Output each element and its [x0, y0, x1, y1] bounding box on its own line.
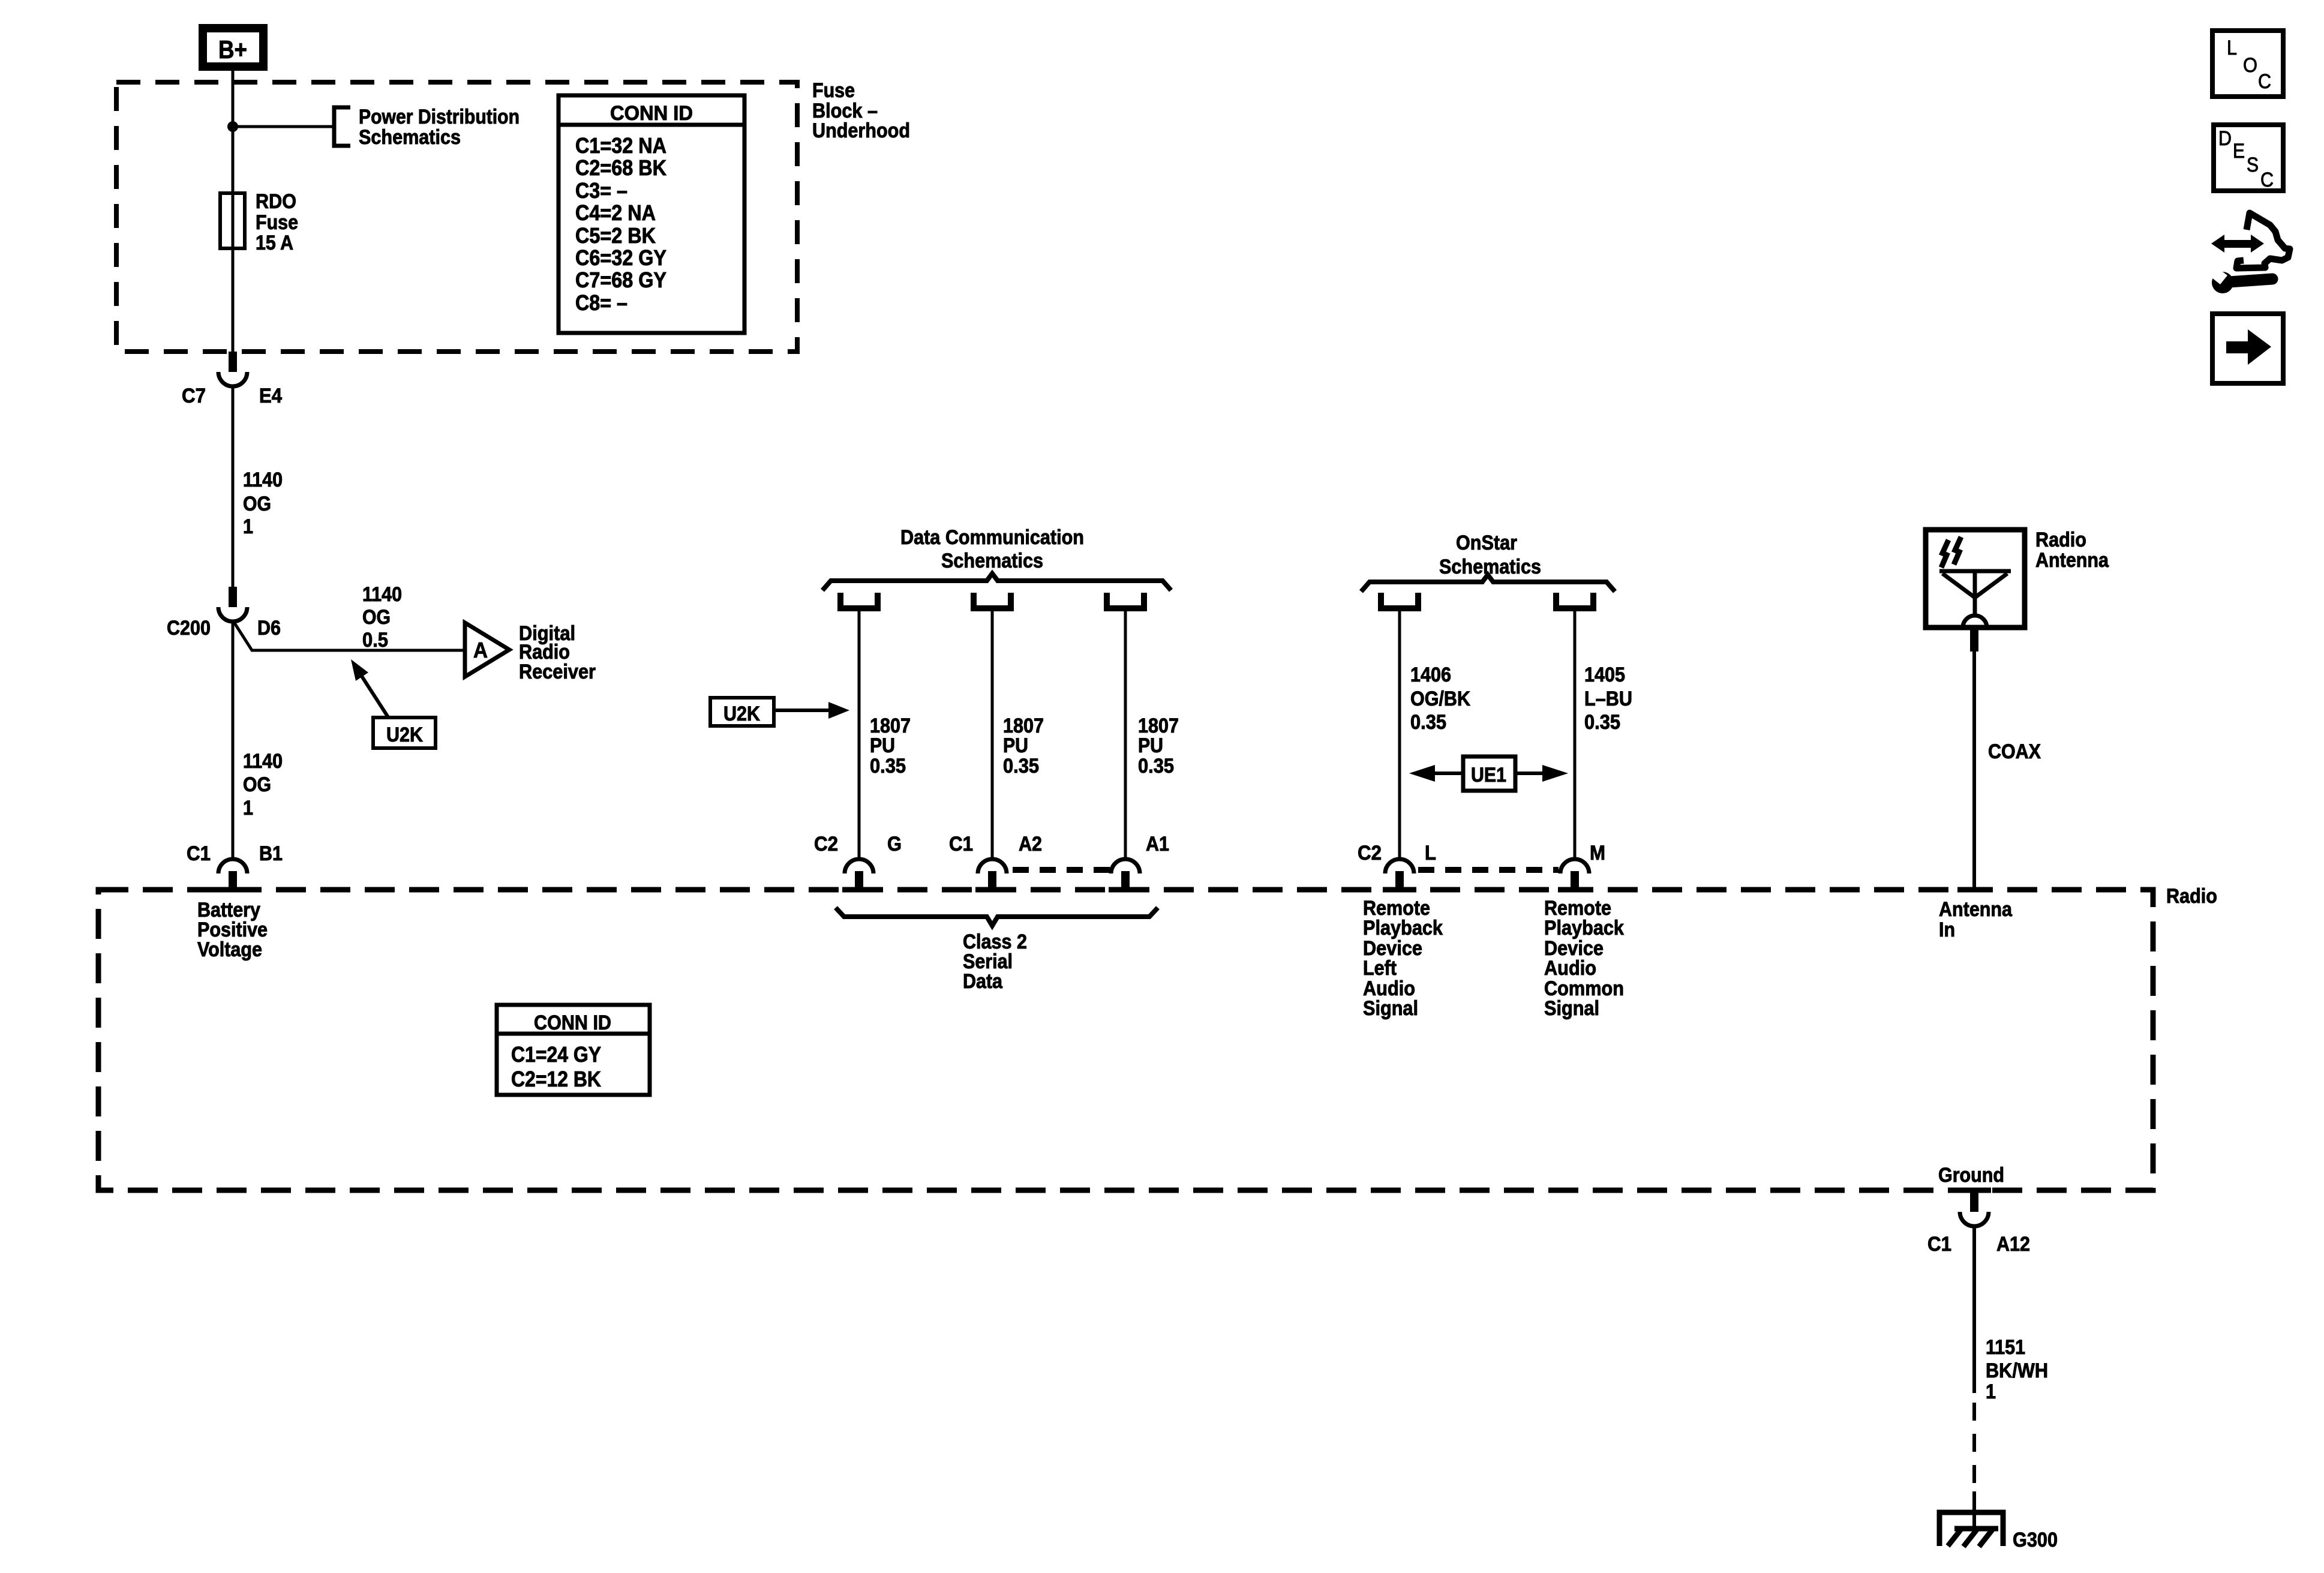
- svg-text:G: G: [887, 833, 902, 855]
- svg-text:E: E: [2233, 140, 2245, 163]
- label 1807 PU 0.35 #2: [1003, 715, 1044, 778]
- svg-text:U2K: U2K: [386, 724, 423, 746]
- svg-text:Antenna: Antenna: [1939, 898, 2013, 921]
- wire stem to ground: [1972, 1491, 1976, 1529]
- fuse RDO 15A: [220, 193, 245, 248]
- svg-text:L: L: [2227, 37, 2237, 59]
- ground symbol G300: [1939, 1512, 2003, 1547]
- connector C7 E4: [182, 352, 282, 407]
- svg-text:A1: A1: [1146, 833, 1169, 855]
- wire 1140 OG 1 lower vertical: [232, 622, 235, 859]
- label 1140 OG 0.5: [362, 583, 402, 652]
- svg-text:Schematics: Schematics: [359, 126, 461, 149]
- svg-text:Data: Data: [963, 970, 1003, 993]
- svg-text:OnStar: OnStar: [1456, 532, 1517, 554]
- connector C1 A2: [949, 833, 1042, 888]
- label 1405 L-BU 0.35: [1584, 664, 1632, 734]
- label 1807 PU 0.35 #3: [1138, 715, 1179, 778]
- svg-text:L–BU: L–BU: [1584, 688, 1632, 710]
- svg-text:Receiver: Receiver: [519, 661, 596, 683]
- class 2 serial data brace: [836, 908, 1158, 926]
- svg-text:C6=32 GY: C6=32 GY: [575, 245, 666, 270]
- remote playback audio common signal pin label: [1544, 897, 1624, 1020]
- svg-text:Fuse: Fuse: [812, 79, 855, 102]
- fuse RDO label: [256, 190, 298, 254]
- antenna in pin label: [1939, 898, 2013, 941]
- svg-text:U2K: U2K: [723, 703, 760, 725]
- svg-text:1: 1: [243, 797, 253, 819]
- class 2 serial data label: [963, 930, 1027, 993]
- coax wire: [1970, 628, 1978, 888]
- connector M: [1560, 842, 1605, 888]
- label G300: [2013, 1529, 2058, 1551]
- onstar connector top 2: [1556, 593, 1593, 608]
- svg-text:15 A: 15 A: [256, 232, 293, 254]
- svg-text:O: O: [2243, 54, 2257, 77]
- svg-text:0.35: 0.35: [870, 755, 906, 778]
- svg-text:CONN ID: CONN ID: [610, 102, 693, 125]
- svg-text:G300: G300: [2013, 1529, 2058, 1551]
- U2K callout near class2 wires: [710, 698, 849, 726]
- fuse block underhood dashed box: [116, 82, 797, 352]
- svg-text:C2: C2: [814, 833, 838, 855]
- wire 1807 PU 0.35 #2: [991, 611, 994, 859]
- svg-text:C8= –: C8= –: [575, 290, 627, 315]
- svg-text:Playback: Playback: [1544, 917, 1624, 939]
- wire to power distribution tab: [233, 125, 334, 128]
- svg-text:0.5: 0.5: [362, 629, 388, 652]
- wire 1405 L-BU: [1574, 611, 1577, 859]
- wire B+ to fuse block vertical: [232, 71, 235, 352]
- svg-text:Audio: Audio: [1544, 957, 1596, 980]
- svg-text:D: D: [2218, 127, 2232, 150]
- svg-text:M: M: [1590, 842, 1605, 864]
- svg-text:PU: PU: [1003, 734, 1028, 757]
- svg-text:0.35: 0.35: [1003, 755, 1039, 778]
- dashed link A2 A1: [1013, 867, 1111, 873]
- svg-text:Power Distribution: Power Distribution: [359, 106, 520, 128]
- data comm connector top 1: [840, 593, 878, 608]
- svg-text:B1: B1: [259, 842, 283, 865]
- svg-text:OG: OG: [243, 493, 271, 515]
- svg-text:1: 1: [243, 515, 253, 538]
- connector A1: [1111, 833, 1169, 888]
- svg-text:OG/BK: OG/BK: [1410, 688, 1470, 710]
- svg-text:A: A: [473, 638, 488, 662]
- data comm connector top 3: [1107, 593, 1144, 608]
- svg-text:C4=2 NA: C4=2 NA: [575, 200, 656, 225]
- label 1406 OG/BK 0.35: [1410, 664, 1470, 734]
- svg-text:E4: E4: [259, 385, 282, 407]
- svg-text:PU: PU: [870, 734, 895, 757]
- svg-text:RDO: RDO: [256, 190, 296, 213]
- svg-text:C7=68 GY: C7=68 GY: [575, 268, 666, 292]
- connector C1 B1 radio battery feed: [187, 842, 283, 888]
- svg-text:C2=12 BK: C2=12 BK: [511, 1067, 601, 1091]
- label COAX: [1988, 740, 2041, 763]
- svg-text:C: C: [2258, 70, 2271, 93]
- svg-text:1151: 1151: [1986, 1336, 2025, 1359]
- svg-text:1140: 1140: [362, 583, 402, 606]
- svg-text:Radio: Radio: [2166, 885, 2217, 908]
- svg-text:Fuse: Fuse: [256, 211, 298, 234]
- LOC icon box: [2212, 31, 2283, 97]
- onstar brace: [1361, 575, 1615, 592]
- connector C2 G: [814, 833, 902, 888]
- radio antenna label: [2035, 529, 2109, 572]
- data communication schematics label: [900, 526, 1084, 572]
- svg-text:OG: OG: [243, 773, 271, 796]
- svg-text:Underhood: Underhood: [812, 119, 910, 142]
- svg-text:C1=24 GY: C1=24 GY: [511, 1042, 601, 1067]
- DESC icon box: [2214, 125, 2283, 191]
- wire 1151 BK/WH solid: [1972, 1226, 1976, 1393]
- svg-text:D6: D6: [257, 617, 281, 640]
- radio antenna box: [1926, 530, 2025, 628]
- power distribution label: [359, 106, 520, 149]
- svg-text:C2=68 BK: C2=68 BK: [575, 155, 666, 180]
- svg-text:Left: Left: [1363, 957, 1397, 980]
- svg-text:A12: A12: [1996, 1233, 2030, 1256]
- wire 1151 dashed segment: [1972, 1403, 1976, 1489]
- svg-text:COAX: COAX: [1988, 740, 2041, 763]
- svg-text:0.35: 0.35: [1410, 711, 1446, 734]
- svg-text:Radio: Radio: [2035, 529, 2086, 551]
- wire 1807 PU 0.35 #3: [1124, 611, 1127, 859]
- connector C200 D6: [167, 587, 281, 640]
- svg-text:1406: 1406: [1410, 664, 1451, 686]
- svg-text:Signal: Signal: [1544, 997, 1599, 1020]
- svg-text:C200: C200: [167, 617, 211, 640]
- ground pin label: [1938, 1164, 2004, 1187]
- svg-text:Schematics: Schematics: [941, 550, 1043, 572]
- svg-text:1: 1: [1986, 1380, 1996, 1403]
- svg-text:Signal: Signal: [1363, 997, 1418, 1020]
- svg-text:CONN ID: CONN ID: [534, 1011, 611, 1034]
- svg-text:Antenna: Antenna: [2035, 549, 2109, 572]
- svg-text:0.35: 0.35: [1138, 755, 1174, 778]
- power distribution bracket: [334, 107, 350, 146]
- dashed link L M: [1418, 867, 1559, 873]
- U2K callout near receiver: [351, 659, 436, 748]
- wire 1140 OG 1 upper: [232, 387, 235, 587]
- digital radio receiver triangle A: [465, 623, 509, 677]
- svg-text:Ground: Ground: [1938, 1164, 2004, 1187]
- svg-text:B+: B+: [218, 35, 247, 64]
- wire 1807 PU 0.35 #1: [858, 611, 861, 859]
- svg-text:UE1: UE1: [1471, 764, 1506, 786]
- svg-text:Data Communication: Data Communication: [900, 526, 1084, 549]
- svg-text:C1=32 NA: C1=32 NA: [575, 133, 666, 158]
- data communication brace: [822, 574, 1171, 590]
- svg-text:1140: 1140: [243, 469, 283, 491]
- battery positive voltage pin label: [197, 899, 268, 961]
- label 1140 OG 1 lower: [243, 750, 283, 819]
- svg-text:C: C: [2260, 169, 2274, 191]
- power terminal B+ box: [203, 28, 263, 67]
- svg-text:Playback: Playback: [1363, 917, 1443, 939]
- onstar schematics label: [1439, 532, 1541, 578]
- svg-text:C1: C1: [187, 842, 211, 865]
- radio dashed box: [98, 890, 2153, 1190]
- radio box connector pads: [216, 890, 1991, 1190]
- UE1 callout with arrows: [1409, 757, 1568, 791]
- data comm connector top 2: [974, 593, 1011, 608]
- svg-text:Voltage: Voltage: [197, 938, 262, 961]
- connector C2 L: [1358, 842, 1436, 888]
- CONN ID table fuse block: [559, 95, 744, 333]
- svg-text:A2: A2: [1019, 833, 1042, 855]
- label 1807 PU 0.35 #1: [870, 715, 911, 778]
- digital radio receiver label: [519, 622, 596, 683]
- wire 1406 OG/BK: [1398, 611, 1401, 859]
- svg-text:1140: 1140: [243, 750, 283, 773]
- onstar connector top 1: [1381, 593, 1418, 608]
- svg-text:C5=2 BK: C5=2 BK: [575, 223, 656, 248]
- fuse block label: [812, 79, 910, 142]
- svg-text:C3= –: C3= –: [575, 178, 627, 203]
- remote playback left audio signal pin label: [1363, 897, 1443, 1020]
- svg-text:In: In: [1939, 918, 1955, 941]
- svg-text:0.35: 0.35: [1584, 711, 1620, 734]
- connector C1 A12: [1927, 1190, 2030, 1256]
- label 1151 BK/WH 1: [1986, 1336, 2048, 1403]
- svg-text:S: S: [2247, 154, 2259, 176]
- svg-text:1405: 1405: [1584, 664, 1625, 686]
- svg-text:C2: C2: [1358, 842, 1382, 864]
- CONN ID table radio: [497, 1005, 650, 1095]
- svg-text:C1: C1: [949, 833, 973, 855]
- svg-text:PU: PU: [1138, 734, 1163, 757]
- diagnostic icon: [2206, 213, 2290, 293]
- svg-text:C7: C7: [182, 385, 206, 407]
- svg-text:L: L: [1425, 842, 1436, 864]
- svg-text:C1: C1: [1927, 1233, 1951, 1256]
- radio label: [2166, 885, 2217, 908]
- label 1140 OG 1 upper: [243, 469, 283, 538]
- svg-text:BK/WH: BK/WH: [1986, 1359, 2048, 1382]
- wire 1140 OG 0.5 branch: [233, 620, 465, 650]
- svg-text:OG: OG: [362, 606, 391, 629]
- junction node: [227, 121, 238, 132]
- arrow icon box: [2212, 314, 2283, 383]
